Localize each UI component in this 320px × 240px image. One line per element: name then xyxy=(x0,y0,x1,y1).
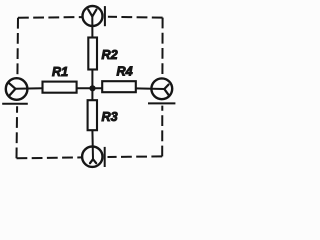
svg-text:R4: R4 xyxy=(117,65,133,79)
wire R4 to right circle xyxy=(136,87,165,90)
transducer right (circle with sideways Y symbol) xyxy=(148,78,175,103)
wire R3 to bottom circle xyxy=(91,130,94,159)
wire dashed top-left segment xyxy=(18,16,82,19)
wire dashed left-upper segment xyxy=(16,18,19,78)
wire R1 to R4 through center node xyxy=(77,87,103,89)
wire dashed top-right segment xyxy=(108,16,163,19)
node center junction xyxy=(89,85,95,91)
wire dashed right-upper segment xyxy=(161,18,163,79)
wire dashed bottom-right segment xyxy=(108,155,163,158)
svg-text:R1: R1 xyxy=(52,65,68,79)
wire dashed left-lower segment xyxy=(16,106,19,158)
transducer left (circle with sideways Y symbol) xyxy=(2,78,28,104)
svg-text:R2: R2 xyxy=(102,48,118,62)
transducer top (circle with Y symbol) xyxy=(83,6,105,26)
svg-text:R3: R3 xyxy=(102,110,118,124)
wire dashed right-lower segment xyxy=(161,106,163,157)
resistor R2 xyxy=(88,38,117,70)
resistor R4 xyxy=(102,65,136,93)
wire top circle to R2 xyxy=(91,16,93,37)
wire dashed bottom-left segment xyxy=(17,156,83,159)
resistor R1 xyxy=(43,65,77,93)
wire R2 to center node xyxy=(91,70,93,101)
wire left circle to R1 xyxy=(16,87,43,90)
resistor R3 xyxy=(88,100,118,130)
transducer bottom (circle with inverted Y symbol) xyxy=(82,147,105,168)
